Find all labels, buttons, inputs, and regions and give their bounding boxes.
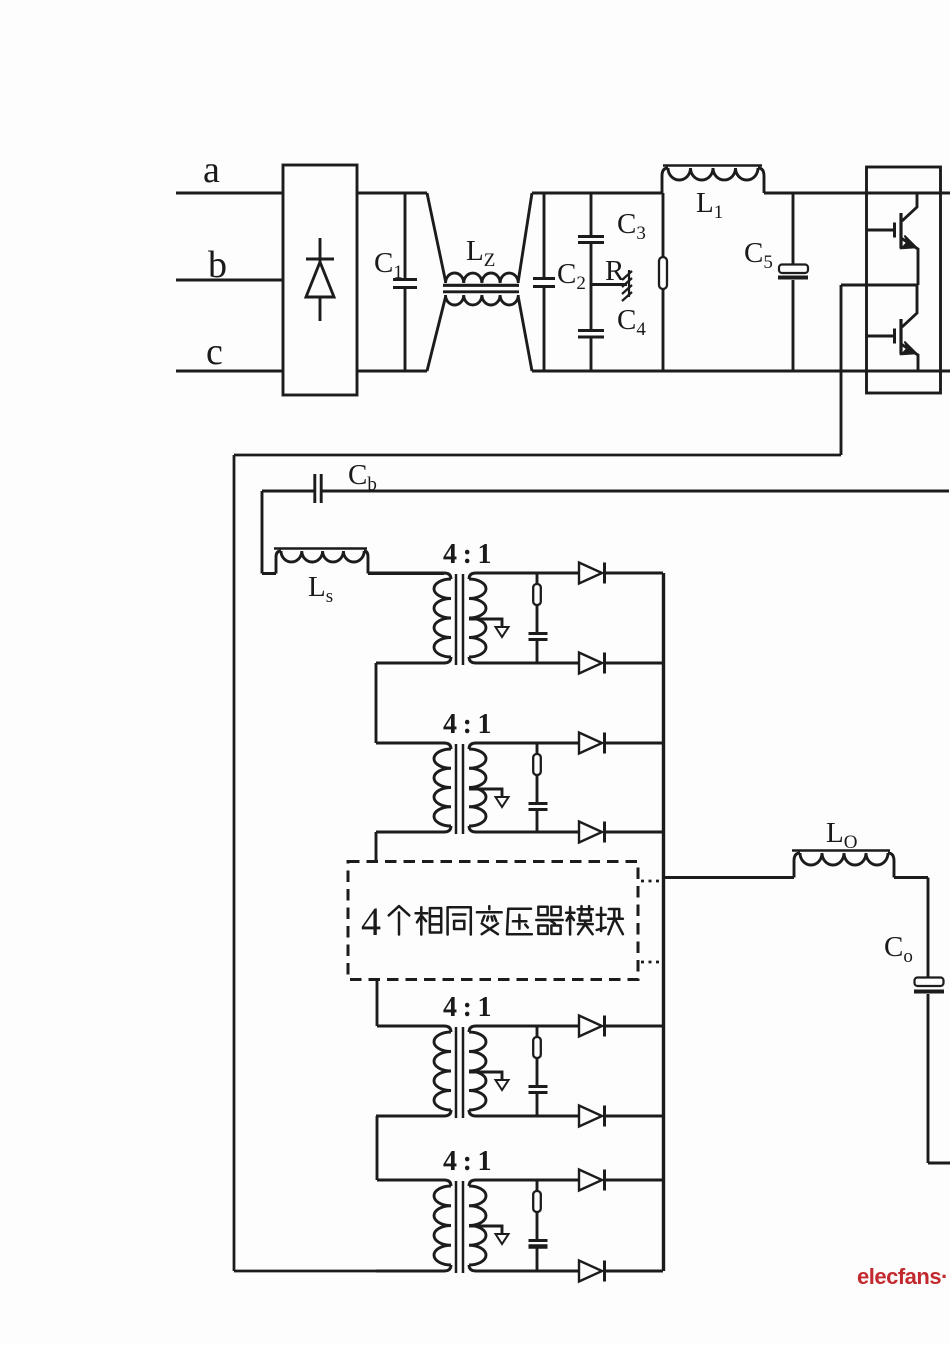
dashed box: 4 identical transformer modules [348, 862, 638, 980]
wire phase c [176, 370, 283, 373]
snubber resistor module 3 [479, 1026, 579, 1058]
snubber resistor module 1 [479, 573, 579, 605]
snubber resistor module 4 [479, 1180, 579, 1212]
snubber resistor module 2 [479, 743, 579, 775]
transformer T1 core [456, 574, 463, 665]
svg-text:4: 4 [361, 899, 381, 944]
diode D3a [579, 1016, 663, 1037]
svg-text:4 : 1: 4 : 1 [443, 1146, 492, 1177]
transformer T4 primary winding [376, 1180, 451, 1271]
R hatch symbol [622, 270, 632, 301]
transformer T3 core [456, 1027, 463, 1118]
output bus vertical [662, 573, 665, 1271]
transformer T1 secondary winding [469, 573, 486, 663]
transformer T4 secondary winding [469, 1180, 486, 1271]
capacitor C4 [578, 243, 604, 371]
transformer T1 secondary tap arrow [469, 619, 509, 637]
rectifier bridge box [283, 165, 357, 395]
svg-text:C2: C2 [557, 258, 586, 294]
wire T1 primary to T2 primary [375, 663, 378, 743]
capacitor Cb [262, 474, 949, 503]
wire secondary bottom module 1 [479, 662, 579, 665]
inductor Lo [792, 851, 928, 878]
svg-text:L1: L1 [696, 187, 723, 223]
wire funnel right [518, 193, 532, 371]
capacitor C2 [533, 193, 555, 371]
wire top rail (funnel to L1) [532, 192, 662, 195]
capacitor C1 [393, 193, 417, 371]
snubber capacitor module 1 [529, 605, 548, 663]
wire output to Lo [664, 876, 794, 879]
svg-text:LO: LO [826, 817, 857, 853]
transistor Q2 (bottom IGBT) [867, 285, 918, 371]
snubber capacitor module 2 [529, 775, 548, 832]
transformer T3 secondary winding [469, 1026, 486, 1116]
wire horizontal to left [234, 454, 841, 457]
wire bottom rail (rectifier to funnel) [357, 370, 427, 373]
wire bottom rail (funnel to right edge) [532, 370, 950, 373]
capacitor Co (electrolytic) [914, 878, 950, 1164]
svg-text:c: c [206, 331, 223, 373]
wire secondary bottom module 3 [479, 1115, 579, 1118]
transformer T2 secondary tap arrow [469, 789, 509, 807]
wire phase b [176, 279, 283, 282]
wire top rail (L1 to right edge) [764, 192, 950, 195]
svg-text:C1: C1 [374, 247, 403, 283]
diode D4a [579, 1170, 663, 1191]
svg-text:C5: C5 [744, 237, 773, 273]
transformer T3 primary winding [376, 1026, 451, 1116]
transformer T4 secondary tap arrow [469, 1226, 509, 1244]
diode D2a [579, 733, 663, 754]
capacitor C5 (electrolytic) [778, 193, 808, 371]
svg-text:Ls: Ls [308, 571, 333, 607]
transformer T3 secondary tap arrow [469, 1072, 509, 1090]
label: 4 ge identical transformer modules (hand-drawn CJK) [361, 899, 623, 944]
inductor L1 [662, 166, 764, 194]
wire secondary bottom module 2 [479, 831, 579, 834]
wire bottom return [234, 1270, 376, 1273]
svg-text:4 : 1: 4 : 1 [443, 992, 492, 1023]
diode D2b [579, 822, 663, 843]
svg-text:Cb: Cb [348, 459, 377, 495]
wire LS to transformer T1 [368, 572, 444, 575]
snubber capacitor module 4 [529, 1212, 548, 1271]
wire funnel left [427, 193, 446, 371]
svg-text:C3: C3 [617, 208, 646, 244]
wire T3 primary to T4 primary [376, 1116, 379, 1180]
svg-text:R: R [605, 255, 625, 287]
IGBT bridge box U1 [867, 167, 941, 393]
svg-text:C4: C4 [617, 304, 646, 340]
resistor R (damping) wire [591, 283, 627, 286]
dotted stub upper [641, 880, 662, 883]
transistor Q1 (top IGBT) [867, 193, 918, 285]
transformer T2 secondary winding [469, 743, 486, 832]
capacitor C3 [578, 193, 604, 243]
inductor LZ common-mode choke [443, 273, 519, 305]
diode D1a [579, 563, 663, 584]
svg-text:b: b [208, 244, 227, 286]
svg-text:Co: Co [884, 931, 913, 967]
diode D3b [579, 1106, 663, 1127]
wire IGBT midpoint [841, 284, 917, 287]
dotted stub lower [641, 961, 662, 964]
svg-text:elecfans·: elecfans· [857, 1264, 948, 1289]
inductor LS [262, 491, 368, 574]
wire phase a [176, 192, 283, 195]
svg-text:LZ: LZ [466, 235, 495, 271]
diode D4b [579, 1261, 663, 1282]
svg-text:4 : 1: 4 : 1 [443, 539, 492, 570]
wire top rail (rectifier to funnel) [357, 192, 427, 195]
resistor R1 vertical branch [659, 193, 667, 371]
svg-text:a: a [203, 149, 220, 191]
transformer T4 core [456, 1181, 463, 1273]
diode D1b [579, 653, 663, 674]
wire dashed box to T3 primary [376, 980, 379, 1027]
wire secondary bottom module 4 [479, 1270, 579, 1273]
transformer T1 primary winding [368, 573, 451, 663]
wire left vertical bus [233, 455, 236, 1271]
svg-text:4 : 1: 4 : 1 [443, 709, 492, 740]
wire from IGBT midpoint down [840, 285, 843, 455]
transformer T2 primary winding [376, 743, 451, 832]
rectifier diode symbol [306, 238, 334, 321]
wire T2 primary to dashed module box [375, 832, 378, 861]
transformer T2 core [456, 744, 463, 834]
snubber capacitor module 3 [529, 1058, 548, 1116]
